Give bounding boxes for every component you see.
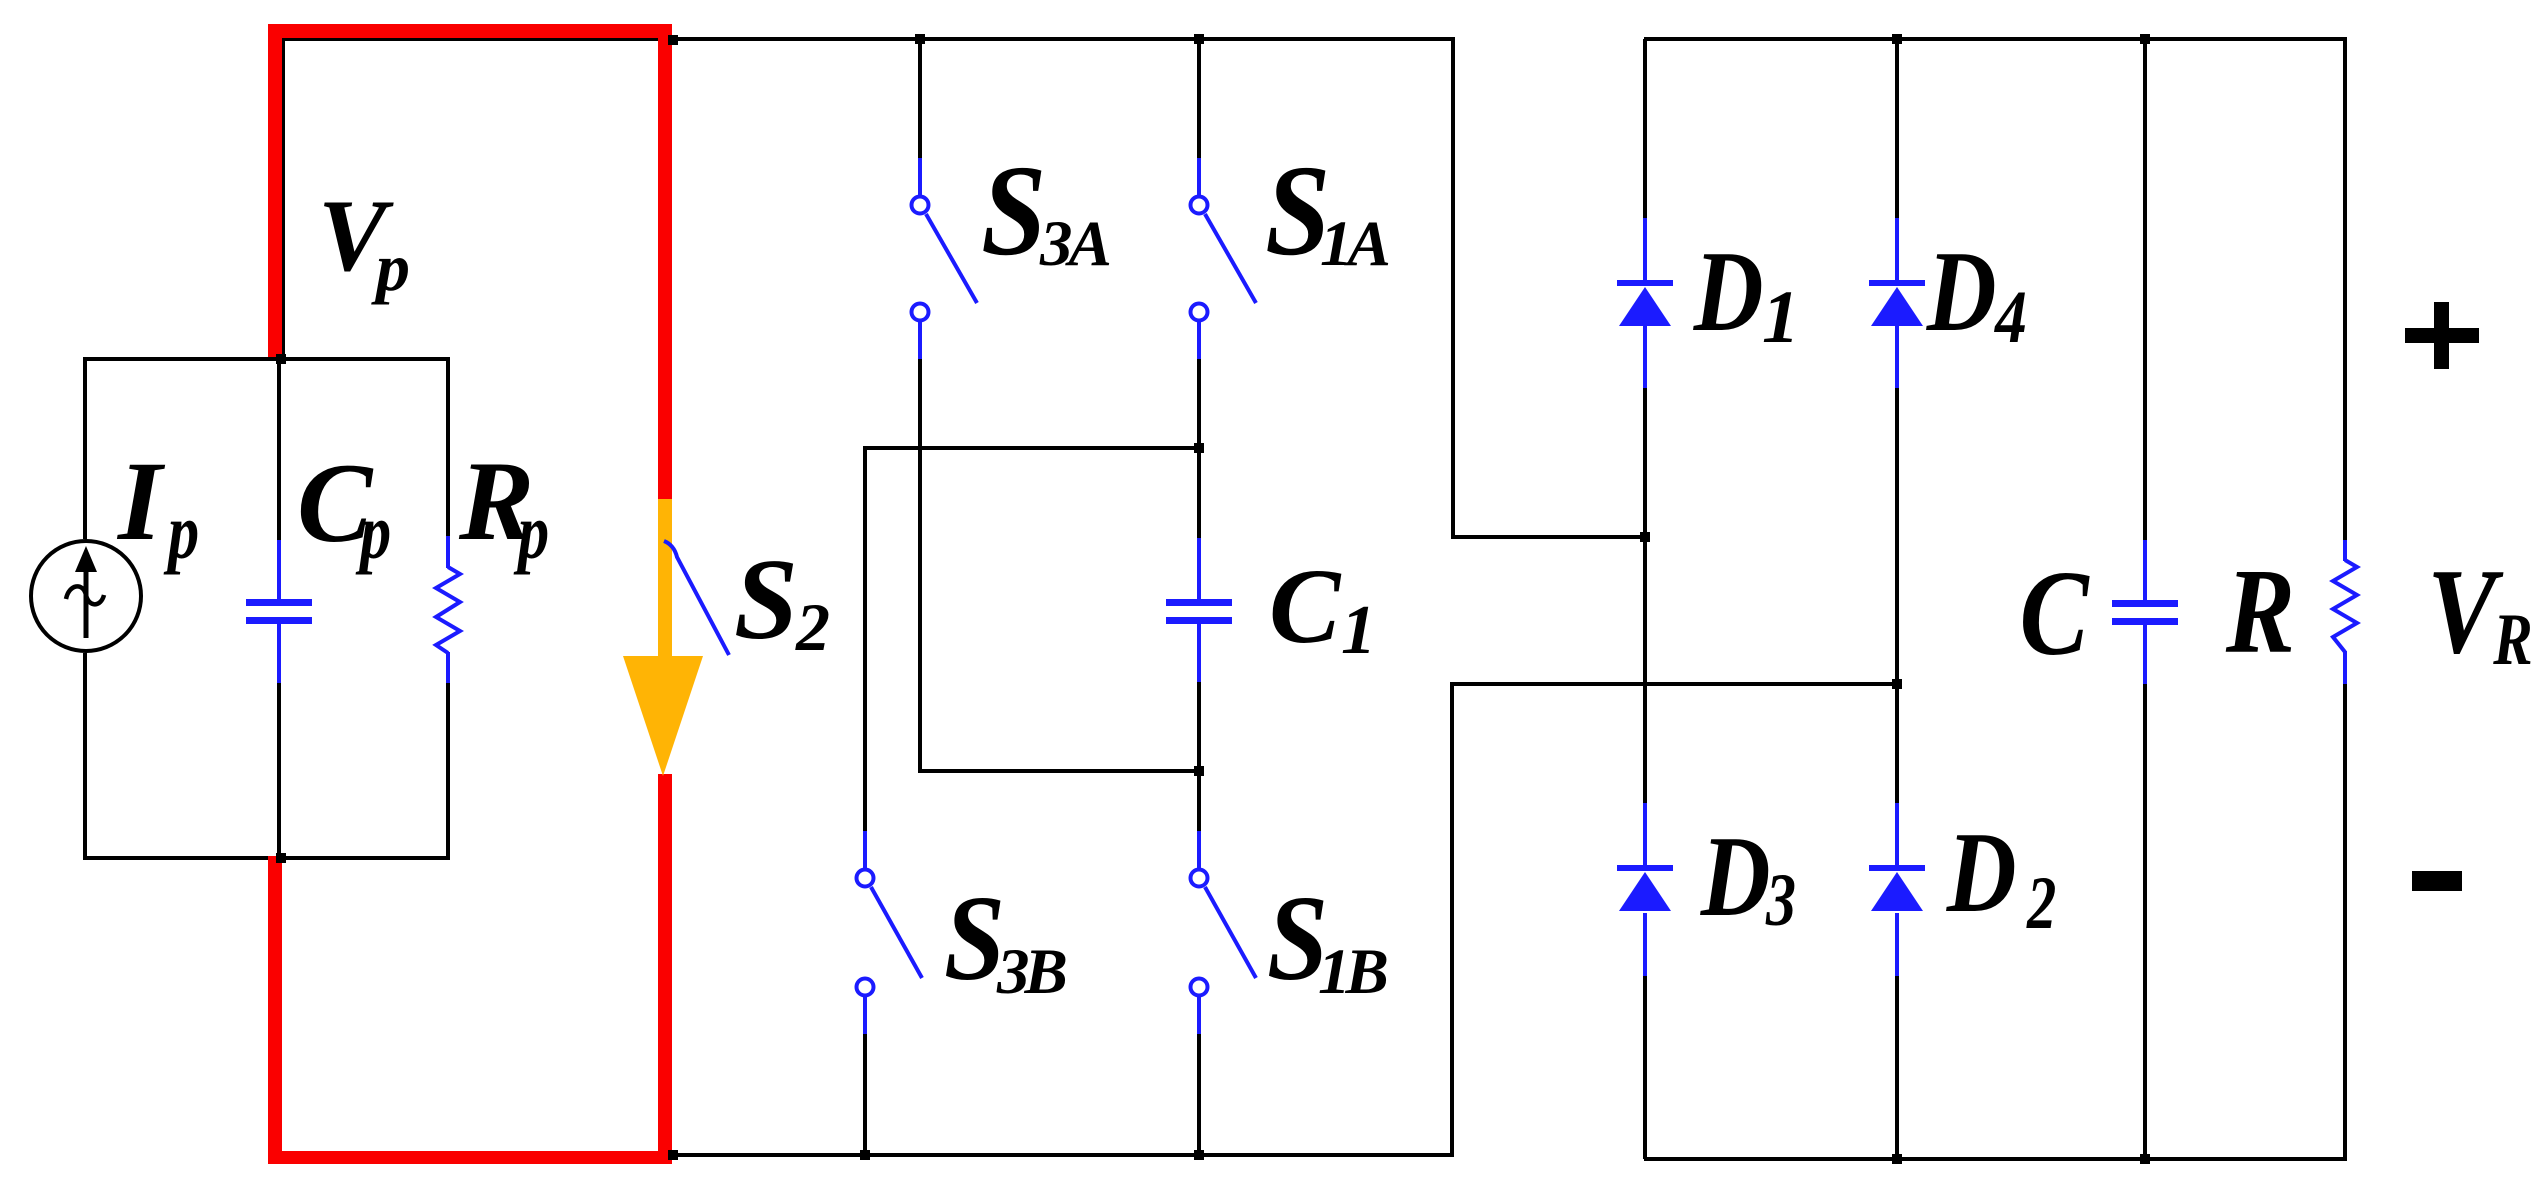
label minus sign [2412,871,2462,891]
wire C output branch bottom black [2143,684,2147,1161]
switch S3A contacts and blade [912,197,929,214]
junction node bridge bottom at D2 [1892,1154,1902,1164]
wire S1A branch from top rail [1197,39,1201,158]
blue wire S3A upper stub [918,158,922,196]
blue wire D4 anode lead [1895,218,1899,280]
blue wire S3B upper stub [863,831,867,869]
blue wire S1B upper stub [1197,831,1201,869]
junction node bottom rail at red loop [668,1150,678,1160]
blue wire S1B lower stub [1197,996,1201,1034]
wire piezo box bottom edge [85,856,450,860]
wire middle-box lower horizontal [918,769,1200,773]
switch S1B contacts and blade [1191,870,1208,887]
wire S1B branch lower black [1197,1033,1201,1155]
junction node C1 top [1194,443,1204,453]
red highlighted loop: left lower segment [268,856,282,1164]
blue wire D2 cathode lead [1895,913,1899,976]
junction node bridge left (D1-D3) [1640,532,1650,542]
diode D4 [1869,280,1925,286]
blue wire S1A lower stub [1197,321,1201,359]
blue wire C1 lower lead [1197,624,1201,682]
label D4 [1927,234,1997,349]
label S2 [734,542,798,657]
blue wire D2 anode lead [1895,803,1899,865]
red highlighted loop: right upper segment [658,24,672,501]
junction node bridge top at C [2140,34,2150,44]
diode D1 [1617,280,1673,286]
junction node bottom rail at S3B [860,1150,870,1160]
wire top rail left section [281,37,1455,41]
junction node top rail at S3A [915,34,925,44]
wire bridge bottom rail [1644,1157,2347,1161]
wire middle-box upper horizontal [863,446,1200,450]
blue wire D1 anode lead [1643,218,1647,280]
blue wire D1 cathode lead [1643,326,1647,388]
current source Ip tilde [66,586,104,604]
wire R output branch bottom black [2343,684,2347,1161]
junction node top rail at S1A [1194,34,1204,44]
red highlighted loop: right lower segment [658,774,672,1164]
wire S3A branch below switch down to lower box wire [918,359,922,771]
label R output [2226,551,2295,673]
blue wire Cp upper lead [277,540,281,600]
wire D4 branch top black [1895,39,1899,218]
orange current arrow shaft [658,499,672,658]
blue wire S1A upper stub [1197,158,1201,196]
junction node bridge top at D4 [1892,34,1902,44]
label plus sign [2405,328,2479,343]
wire piezo box right edge upper (Rp branch) [446,357,450,536]
diode D3 [1617,865,1673,871]
blue wire R output upper lead [2343,540,2347,561]
resistor R zigzag [2333,560,2357,652]
blue wire S3A lower stub [918,321,922,359]
wire S3A branch from top rail [918,39,922,158]
orange current arrow head [623,656,703,776]
label Rp [459,445,534,558]
wire piezo box top edge [85,357,450,361]
switch S1A contacts and blade [1191,197,1208,214]
blue wire S3B lower stub [863,996,867,1034]
label Vp [318,185,387,288]
junction node piezo box bottom (Vp-) [276,853,286,863]
capacitor Cp bottom plate [246,617,312,624]
wire C1 bottom to lower node [1197,682,1201,831]
wire vertical from top rail down to bridge left node [1451,37,1455,539]
wire Cp branch lower [277,682,281,858]
wire horizontal from bridge right node to left [1450,682,1899,686]
wire bridge top rail [1644,37,2347,41]
blue wire C output lower lead [2143,625,2147,684]
blue wire Rp upper lead [446,536,450,568]
wire D1 branch top black [1643,39,1647,218]
blue wire C output upper lead [2143,540,2147,601]
label D2 [1947,815,2017,930]
label S1B [1267,878,1328,1000]
wire piezo box left edge lower [83,653,87,860]
current source Ip circle [31,541,141,651]
wire piezo box left edge upper [83,357,87,539]
blue wire D3 cathode lead [1643,913,1647,976]
wire S1A to C1 node [1197,359,1201,538]
diode D2 [1869,865,1925,871]
wire horizontal into bridge left node [1451,535,1646,539]
junction node bridge bottom at C [2140,1154,2150,1164]
junction node bottom rail at S1B [1194,1150,1204,1160]
capacitor C top plate [2112,600,2178,607]
label S1A [1265,146,1330,276]
label S3B [944,878,1005,1000]
wire R output branch top black [2343,39,2347,540]
label C output [2019,553,2088,675]
junction node piezo box top (Vp+) [276,354,286,364]
label D1 [1694,234,1764,349]
wire D4-D2 mid black [1895,388,1899,803]
resistor Rp zigzag [436,567,460,653]
capacitor C1 top plate [1166,599,1232,606]
wire D3 bottom black [1643,976,1647,1159]
wire bottom rail left section [657,1153,1454,1157]
blue wire D4 cathode lead [1895,326,1899,388]
switch S2 blade [664,541,729,655]
wire D2 bottom black [1895,976,1899,1161]
wire Vp node vertical (top rail to box, beside red highlight) [281,37,285,359]
blue wire R output lower lead [2343,651,2347,684]
label D3 [1701,819,1771,934]
red highlighted loop: left upper segment [268,24,282,357]
label Cp [297,447,372,560]
blue wire Rp lower lead [446,652,450,683]
capacitor Cp top plate [246,599,312,606]
blue wire D3 anode lead [1643,803,1647,865]
red highlighted loop: bottom segment [268,1151,672,1164]
junction node top rail at red loop [668,35,678,45]
wire Cp branch upper [277,359,281,540]
label Ip [118,445,162,558]
wire D1-D3 mid black [1643,388,1647,803]
current source Ip arrow [84,570,89,638]
wire C output branch top black [2143,39,2147,540]
wire piezo box right edge lower (Rp branch) [446,683,450,860]
blue wire C1 upper lead [1197,538,1201,600]
red highlighted loop: top segment [268,24,672,38]
capacitor C bottom plate [2112,618,2178,625]
junction node C1 bottom [1194,766,1204,776]
switch S3B contacts and blade [857,870,874,887]
wire S3B branch upper black [863,448,867,831]
label VR [2427,551,2496,673]
junction node bridge right (D4-D2) [1892,679,1902,689]
wire vertical down from bridge-right-node wire [1450,682,1454,1157]
label C1 [1269,554,1340,661]
capacitor C1 bottom plate [1166,617,1232,624]
wire S3B branch lower black [863,1033,867,1155]
label S3A [981,146,1046,276]
blue wire Cp lower lead [277,624,281,683]
